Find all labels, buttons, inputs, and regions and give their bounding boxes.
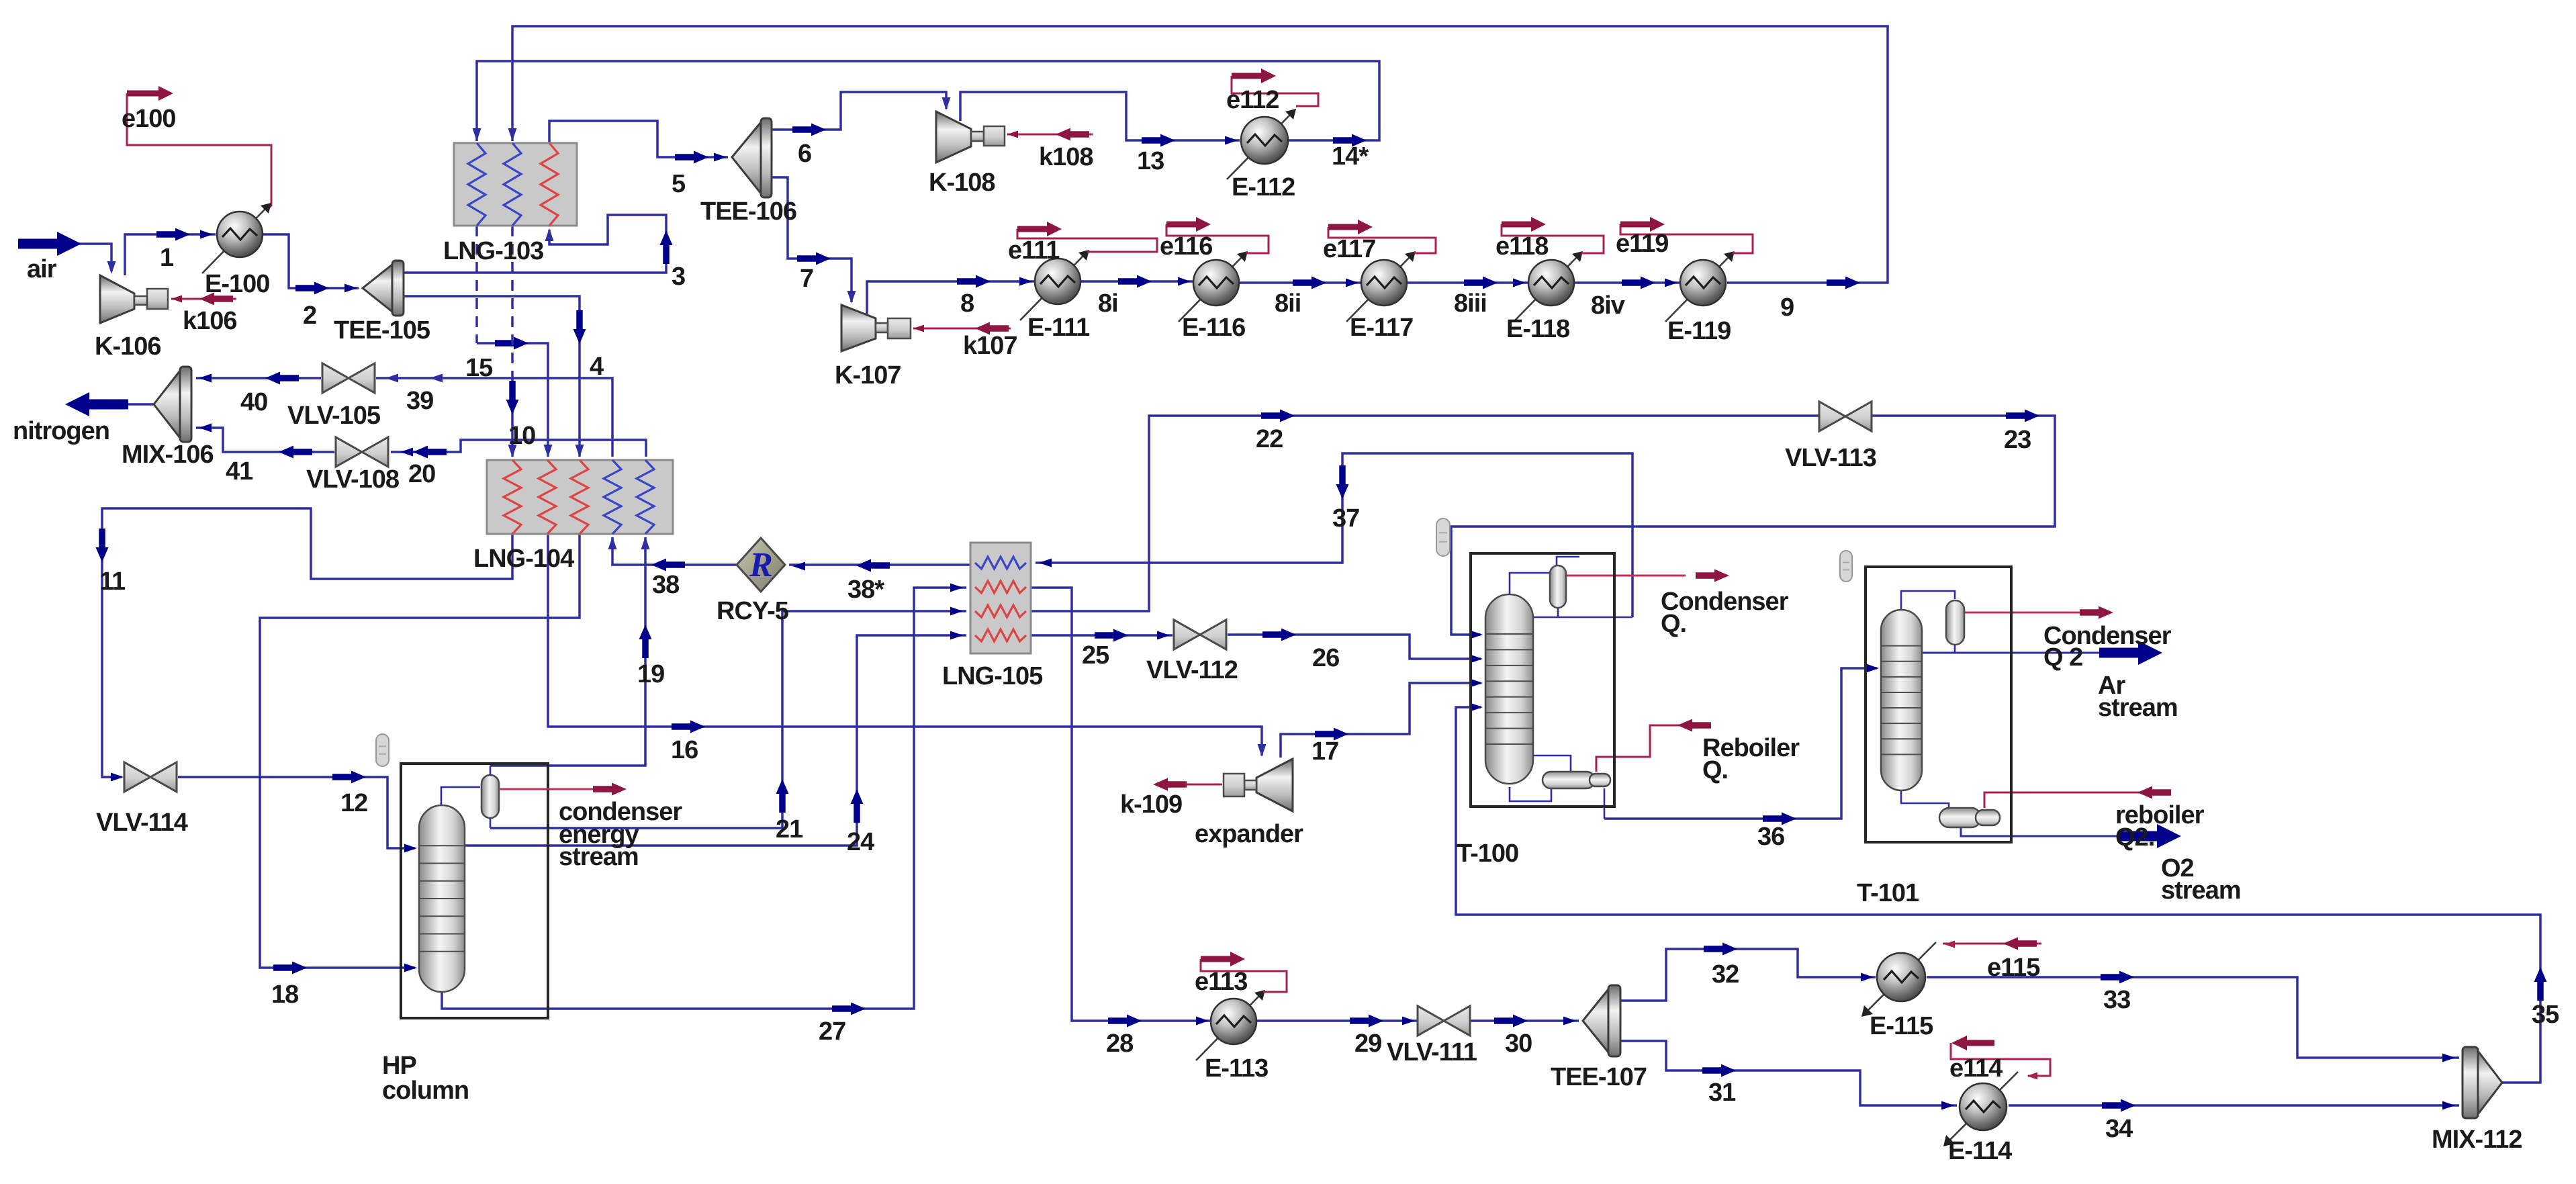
- label MIX-112: [2432, 1126, 2522, 1154]
- svg-text:8: 8: [960, 289, 974, 318]
- energy stream e115 arrow: [1943, 938, 2041, 950]
- label E-118: [1506, 315, 1569, 343]
- wire stream 2 (E-100 to TEE-105): [263, 234, 359, 295]
- label 24: [847, 828, 874, 856]
- label e100: [122, 105, 176, 133]
- label Reboiler Q. (T-100): [1702, 734, 1800, 784]
- wire stream 8iv: [1574, 277, 1680, 289]
- svg-text:8i: 8i: [1098, 289, 1118, 318]
- label 27: [819, 1017, 845, 1046]
- label expander: [1195, 820, 1303, 848]
- label e113: [1195, 968, 1247, 996]
- svg-text:e116: e116: [1160, 232, 1212, 261]
- compressor K-108: [936, 111, 1005, 163]
- label Condenser Q. (T-100): [1661, 588, 1789, 638]
- svg-text:15: 15: [465, 354, 493, 382]
- label TEE-105: [334, 316, 430, 345]
- wire stream 15/39 (LNG-104 coil4 to VLV-105): [376, 374, 612, 457]
- wire stream 5 (LNG-103 to TEE-106): [549, 121, 728, 164]
- label reboiler Q2. (T-101): [2115, 801, 2205, 852]
- valve VLV-105: [322, 363, 375, 393]
- svg-text:19: 19: [637, 660, 664, 688]
- tee TEE-106: [732, 118, 772, 197]
- label E-116: [1182, 314, 1245, 342]
- label 5: [672, 170, 686, 198]
- label e116: [1160, 232, 1212, 261]
- label 34: [2105, 1115, 2133, 1143]
- label 33: [2103, 986, 2130, 1014]
- label e118: [1496, 232, 1548, 261]
- label K-106: [95, 332, 161, 361]
- svg-text:1: 1: [160, 244, 174, 272]
- label TEE-106: [700, 197, 796, 226]
- svg-text:e112: e112: [1226, 86, 1279, 114]
- energy Condenser Q 2 (T-101): [1964, 606, 2113, 619]
- label 2: [303, 302, 316, 330]
- svg-text:e118: e118: [1496, 232, 1548, 261]
- label 8iv: [1591, 291, 1625, 320]
- label 39: [406, 387, 433, 415]
- label LNG-103: [443, 237, 543, 265]
- svg-text:20: 20: [408, 460, 435, 488]
- label 23: [2004, 426, 2031, 454]
- wire stream 8ii: [1239, 277, 1361, 289]
- label E-112: [1232, 173, 1295, 201]
- wire stream 27 (HP column bottoms to LNG-105 coil 1): [442, 584, 966, 1015]
- svg-text:8ii: 8ii: [1275, 289, 1301, 318]
- svg-text:35: 35: [2532, 1001, 2559, 1029]
- svg-text:23: 23: [2004, 426, 2031, 454]
- svg-text:K-106: K-106: [95, 332, 161, 361]
- label O2 stream: [2161, 854, 2241, 905]
- label E-113: [1205, 1054, 1268, 1083]
- svg-text:TEE-105: TEE-105: [334, 316, 430, 345]
- svg-text:40: 40: [240, 388, 267, 416]
- svg-text:12: 12: [340, 789, 367, 817]
- svg-text:14*: 14*: [1332, 142, 1369, 171]
- energy stream e118: [1502, 217, 1604, 253]
- svg-text:21: 21: [776, 815, 803, 844]
- label Condenser Q 2 (T-101): [2043, 622, 2172, 672]
- svg-text:Q.: Q.: [1661, 610, 1686, 638]
- energy Condenser Q (T-100): [1566, 570, 1729, 582]
- heat exchanger E-100: [202, 203, 271, 273]
- wire stream 10 / 15 junction (LNG-103 coil2 down through junction to LNG-104 coil1): [506, 226, 519, 457]
- wire stream 20 (LNG-104 coil5 to VLV-108): [391, 440, 646, 459]
- svg-text:18: 18: [271, 981, 298, 1009]
- label 7: [800, 265, 813, 293]
- svg-text:17: 17: [1312, 737, 1338, 766]
- heat exchanger E-117: [1346, 251, 1416, 322]
- svg-text:26: 26: [1312, 644, 1339, 672]
- label nitrogen: [13, 417, 109, 445]
- svg-text:MIX-112: MIX-112: [2432, 1126, 2522, 1154]
- valve VLV-114: [124, 762, 177, 792]
- column T-100 vessel: [1485, 594, 1533, 784]
- valve VLV-111: [1418, 1006, 1470, 1036]
- energy stream e111: [1017, 222, 1157, 252]
- svg-text:24: 24: [847, 828, 874, 856]
- wire stream 35 (MIX-112 to T-100): [1456, 703, 2547, 1083]
- wire stream 30 (VLV-111 to TEE-107): [1470, 1015, 1579, 1028]
- svg-text:nitrogen: nitrogen: [13, 417, 109, 445]
- wire stream 7 (TEE-106 to K-107): [772, 177, 856, 304]
- energy stream k-109 arrow: [1153, 778, 1222, 791]
- label T-101: [1857, 879, 1919, 907]
- svg-text:Q2.: Q2.: [2115, 823, 2154, 852]
- svg-text:VLV-105: VLV-105: [287, 402, 381, 430]
- arrow nitrogen product: [65, 392, 154, 416]
- wire T-101 reboiler piping: [1901, 787, 1949, 808]
- wire stream 17 (expander outlet to T-100): [1281, 679, 1483, 758]
- label k-109: [1120, 790, 1182, 819]
- label E-117: [1350, 314, 1413, 342]
- label k108: [1039, 143, 1093, 171]
- svg-text:9: 9: [1780, 293, 1794, 322]
- label k106: [183, 307, 237, 335]
- label 15: [465, 354, 493, 382]
- HP column boundary box: [401, 764, 548, 1018]
- svg-text:39: 39: [406, 387, 433, 415]
- svg-text:10: 10: [508, 422, 535, 450]
- wire stream 25 (LNG-105 coil3 out to VLV-112): [1028, 629, 1172, 642]
- label VLV-111: [1387, 1038, 1477, 1066]
- label 20: [408, 460, 435, 488]
- label 11: [99, 567, 126, 596]
- svg-text:8iii: 8iii: [1454, 289, 1487, 318]
- wire stream 37 (T-100 condenser vapour to LNG-105 cold coil): [1036, 453, 1632, 617]
- T-100 reboiler: [1543, 772, 1610, 788]
- wire stream 41 (VLV-108 to MIX-106): [196, 424, 334, 459]
- label 9: [1780, 293, 1794, 322]
- svg-text:29: 29: [1354, 1030, 1381, 1058]
- expander k-109: [1224, 759, 1293, 811]
- label 17: [1312, 737, 1338, 766]
- svg-text:column: column: [382, 1077, 469, 1105]
- wire stream 40 (VLV-105 to MIX-106): [196, 372, 321, 385]
- heat exchanger E-115: [1861, 942, 1936, 1017]
- wire stream 8iii: [1407, 277, 1528, 289]
- wire stream 31 (TEE-107 to E-114): [1620, 1041, 1957, 1110]
- label e115: [1987, 954, 2040, 982]
- svg-text:4: 4: [590, 353, 604, 381]
- label T-100: [1457, 839, 1518, 868]
- svg-text:air: air: [27, 255, 57, 283]
- label LNG-104: [473, 545, 574, 573]
- svg-text:16: 16: [671, 736, 698, 764]
- energy condenser energy stream (HP): [499, 783, 627, 796]
- label RCY-5: [717, 597, 789, 625]
- svg-text:Q 2: Q 2: [2043, 643, 2082, 672]
- energy stream e119: [1620, 217, 1753, 253]
- energy Reboiler Q (T-100): [1596, 719, 1711, 772]
- svg-text:E-118: E-118: [1506, 315, 1569, 343]
- wire stream 8i: [1080, 275, 1193, 288]
- compressor K-106: [100, 275, 168, 323]
- recycle RCY-5: [737, 538, 785, 592]
- svg-text:TEE-107: TEE-107: [1551, 1063, 1647, 1091]
- energy stream e100: [127, 86, 271, 209]
- svg-text:38: 38: [652, 571, 679, 599]
- energy stream e114 loop: [1951, 1036, 2050, 1080]
- label 19: [637, 660, 664, 688]
- wire stream 32 (TEE-107 to E-115): [1620, 943, 1876, 1001]
- wire T-100 column top to condenser: [1510, 573, 1551, 598]
- label Ar stream: [2098, 672, 2178, 722]
- wire stream 28 riser (LNG-105 coil1 out to E-113): [1072, 610, 1211, 1028]
- label 38*: [847, 576, 884, 604]
- label VLV-112: [1146, 656, 1238, 684]
- energy stream e117: [1328, 220, 1436, 253]
- heat exchanger E-119: [1665, 251, 1735, 322]
- svg-text:LNG-103: LNG-103: [443, 237, 543, 265]
- status icon T-100: [1436, 518, 1450, 556]
- label 18: [271, 981, 298, 1009]
- label VLV-105: [287, 402, 381, 430]
- label 32: [1712, 960, 1739, 989]
- svg-text:E-112: E-112: [1232, 173, 1295, 201]
- svg-text:E-117: E-117: [1350, 314, 1413, 342]
- compressor K-107: [841, 305, 911, 351]
- svg-text:27: 27: [819, 1017, 845, 1046]
- svg-text:8iv: 8iv: [1591, 291, 1625, 320]
- svg-text:k107: k107: [963, 332, 1017, 360]
- valve VLV-113: [1819, 402, 1872, 431]
- label HP column: [382, 1052, 469, 1105]
- svg-text:31: 31: [1708, 1079, 1736, 1107]
- svg-text:VLV-112: VLV-112: [1146, 656, 1238, 684]
- wire stream 4 (TEE-105 to LNG-104 coil 3): [404, 296, 586, 457]
- label condenser energy stream: [559, 798, 682, 871]
- label 22: [1256, 425, 1283, 453]
- wire T-100 condenser bottom line: [1533, 557, 1632, 617]
- wire LNG-103 coil1 bottom to LNG-104 coil2: [477, 226, 553, 457]
- svg-text:k-109: k-109: [1120, 790, 1182, 819]
- svg-text:stream: stream: [559, 843, 639, 871]
- label 21: [776, 815, 803, 844]
- label e114: [1949, 1054, 2003, 1083]
- heat exchanger E-116: [1179, 251, 1248, 322]
- label 8: [960, 289, 974, 318]
- wire stream 1 (K-106 to E-100): [125, 228, 216, 276]
- label 12: [340, 789, 367, 817]
- wire stream 23 (VLV-113 to T-100 top): [1451, 410, 2055, 639]
- svg-text:e114: e114: [1949, 1054, 2003, 1083]
- svg-text:38*: 38*: [847, 576, 884, 604]
- heat exchanger E-112: [1227, 109, 1296, 179]
- svg-text:22: 22: [1256, 425, 1283, 453]
- label K-107: [835, 361, 901, 390]
- wire stream 26 (VLV-112 to T-100): [1228, 629, 1483, 664]
- svg-text:e117: e117: [1323, 235, 1375, 263]
- label e117: [1323, 235, 1375, 263]
- svg-text:5: 5: [672, 170, 686, 198]
- svg-text:e115: e115: [1987, 954, 2040, 982]
- label 28: [1106, 1030, 1133, 1058]
- label TEE-107: [1551, 1063, 1647, 1091]
- energy stream k108 arrow: [1007, 128, 1093, 141]
- wire stream 18 (LNG-104 coil3 bottom to HP column): [260, 534, 580, 974]
- wire stream 21 (HP condenser liquid to LNG-105 coil 2): [490, 607, 966, 829]
- svg-text:RCY-5: RCY-5: [717, 597, 789, 625]
- T-101 condenser: [1946, 600, 1964, 645]
- column T-100 boundary box: [1471, 553, 1614, 807]
- label 8ii: [1275, 289, 1301, 318]
- label e119: [1616, 230, 1668, 258]
- svg-text:K-107: K-107: [835, 361, 901, 390]
- svg-text:28: 28: [1106, 1030, 1133, 1058]
- label VLV-108: [306, 465, 399, 494]
- wire stream 14* return (E-112 to LNG-103 blue coil 1): [473, 61, 1380, 147]
- svg-text:7: 7: [800, 265, 813, 293]
- svg-text:VLV-111: VLV-111: [1387, 1038, 1477, 1066]
- wire air inlet to K-106: [79, 244, 116, 274]
- label e112: [1226, 86, 1279, 114]
- svg-text:stream: stream: [2098, 694, 2178, 722]
- energy stream e112: [1232, 69, 1318, 106]
- label E-119: [1667, 317, 1731, 345]
- label K-108: [929, 169, 995, 197]
- wire stream 22 (LNG-105 coils out to VLV-113): [1028, 410, 1819, 612]
- mixer MIX-112: [2463, 1047, 2502, 1118]
- svg-text:34: 34: [2105, 1115, 2133, 1143]
- arrow air feed: [18, 232, 81, 256]
- label VLV-113: [1785, 444, 1876, 472]
- svg-text:E-114: E-114: [1948, 1137, 2012, 1165]
- label MIX-106: [122, 441, 214, 469]
- tee TEE-105: [363, 261, 404, 316]
- label E-114: [1948, 1137, 2012, 1165]
- svg-text:E-111: E-111: [1027, 314, 1090, 342]
- svg-text:MIX-106: MIX-106: [122, 441, 214, 469]
- label E-111: [1027, 314, 1090, 342]
- svg-text:stream: stream: [2161, 876, 2241, 905]
- label k107: [963, 332, 1017, 360]
- valve VLV-108: [336, 437, 388, 467]
- wire stream 24 (HP column draw to LNG-105 coil 3): [465, 631, 966, 846]
- svg-text:HP: HP: [382, 1052, 416, 1080]
- wire Ar stream line: [1922, 641, 2162, 665]
- svg-text:36: 36: [1757, 823, 1784, 851]
- wire stream 34 (E-114 to MIX-112): [2009, 1099, 2459, 1112]
- wire stream 12 (VLV-114 to HP column): [178, 771, 417, 853]
- svg-text:e113: e113: [1195, 968, 1247, 996]
- svg-text:E-115: E-115: [1870, 1012, 1933, 1040]
- svg-text:37: 37: [1332, 504, 1359, 533]
- wire stream 36 (T-100 bottoms to T-101): [1604, 664, 1879, 825]
- svg-text:LNG-104: LNG-104: [473, 545, 574, 573]
- wire T-100 reboiler piping: [1510, 756, 1604, 819]
- HP column condenser: [441, 766, 499, 828]
- wire stream 3 (TEE-105 to LNG-103 hot coil inlet): [404, 215, 673, 273]
- label 14*: [1332, 142, 1369, 171]
- energy stream e116: [1166, 217, 1269, 253]
- svg-text:LNG-105: LNG-105: [942, 662, 1043, 690]
- label 35: [2532, 1001, 2559, 1029]
- LNG exchanger LNG-104: [487, 460, 673, 534]
- HP column vessel: [419, 805, 465, 992]
- valve VLV-112: [1174, 620, 1226, 649]
- svg-text:VLV-114: VLV-114: [96, 809, 188, 837]
- svg-text:TEE-106: TEE-106: [700, 197, 796, 226]
- status icon T-101: [1840, 551, 1852, 582]
- label 30: [1505, 1030, 1532, 1058]
- label 16: [671, 736, 698, 764]
- label 10: [508, 422, 535, 450]
- svg-text:VLV-108: VLV-108: [306, 465, 399, 494]
- svg-text:E-113: E-113: [1205, 1054, 1268, 1083]
- wire stream 16 (LNG-104 coil2 to expander): [548, 534, 1267, 757]
- energy reboiler Q2 (T-101): [1984, 786, 2171, 809]
- label 13: [1137, 147, 1164, 175]
- svg-text:expander: expander: [1195, 820, 1303, 848]
- wire stream 19 (HP condenser vapour to LNG-104 blue coil 2): [490, 537, 652, 766]
- label VLV-114: [96, 809, 188, 837]
- svg-text:25: 25: [1082, 641, 1109, 670]
- svg-text:E-116: E-116: [1182, 314, 1245, 342]
- wire stream 38* (LNG-105 cold coil to RCY-5): [789, 559, 970, 572]
- svg-text:Q.: Q.: [1702, 756, 1728, 784]
- svg-text:VLV-113: VLV-113: [1785, 444, 1876, 472]
- svg-text:41: 41: [226, 457, 253, 486]
- energy stream k106 arrow: [171, 293, 236, 306]
- wire stream 33 (E-115 to MIX-112): [1927, 971, 2459, 1062]
- wire stream 13 (K-108 to E-112): [960, 92, 1240, 147]
- wire stream 29 (E-113 to VLV-111): [1256, 1015, 1418, 1028]
- label 8iii: [1454, 289, 1487, 318]
- svg-text:k108: k108: [1039, 143, 1093, 171]
- LNG exchanger LNG-103: [454, 143, 577, 226]
- label 26: [1312, 644, 1339, 672]
- svg-text:e119: e119: [1616, 230, 1668, 258]
- T-101 reboiler: [1939, 808, 2000, 827]
- svg-text:13: 13: [1137, 147, 1164, 175]
- svg-text:6: 6: [798, 140, 811, 168]
- wire stream 9 top return (E-119 to LNG-103 blue coil 2): [508, 26, 1888, 289]
- svg-text:2: 2: [303, 302, 316, 330]
- svg-text:E-100: E-100: [205, 270, 269, 298]
- status icon HP column: [376, 734, 389, 766]
- label LNG-105: [942, 662, 1043, 690]
- energy stream e113: [1201, 952, 1287, 992]
- heat exchanger E-118: [1514, 251, 1583, 322]
- energy stream k107 arrow: [913, 322, 1011, 335]
- svg-text:11: 11: [99, 567, 126, 596]
- tee TEE-107: [1583, 985, 1620, 1056]
- column T-101 vessel: [1881, 610, 1922, 790]
- svg-text:K-108: K-108: [929, 169, 995, 197]
- svg-text:e111: e111: [1008, 236, 1060, 265]
- label 38: [652, 571, 679, 599]
- label 1: [160, 244, 174, 272]
- wire O2 stream line: [1961, 824, 2181, 848]
- label E-100: [205, 270, 269, 298]
- wire T-101 column top to condenser: [1901, 591, 1955, 612]
- label 3: [672, 263, 685, 291]
- svg-text:3: 3: [672, 263, 685, 291]
- label 4: [590, 353, 604, 381]
- svg-text:30: 30: [1505, 1030, 1532, 1058]
- svg-text:T-100: T-100: [1457, 839, 1518, 868]
- heat exchanger E-111: [1020, 250, 1089, 320]
- wire stream 38 (RCY-5 to LNG-104 blue coil): [608, 537, 737, 572]
- heat exchanger E-113: [1196, 990, 1265, 1060]
- label 31: [1708, 1079, 1736, 1107]
- label E-115: [1870, 1012, 1933, 1040]
- T-100 condenser: [1550, 565, 1566, 608]
- wire stream 8 (K-107 to E-111): [867, 275, 1034, 316]
- mixer MIX-106: [154, 367, 191, 442]
